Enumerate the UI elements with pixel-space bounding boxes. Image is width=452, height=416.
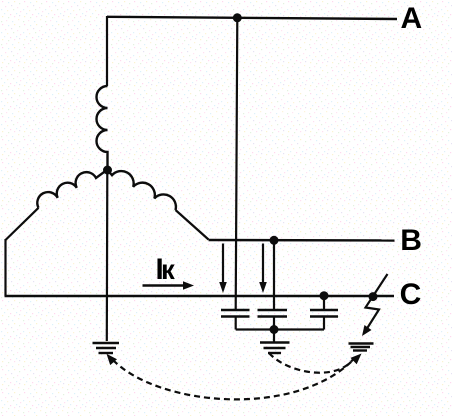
wire: B tap down to capacitor C2 [273,240,275,309]
wire: capacitor common bus [236,328,324,330]
capacitor C2 [258,310,288,317]
svg-text:C: C [400,278,422,311]
node: neutral junction dot [103,166,112,175]
fault lightning arrow [362,274,388,336]
dashed earth-current arc: fault to neutral ground [107,354,355,400]
current arrow: second branch [259,244,267,294]
node: C tap junction dot [320,291,329,300]
wire: diagonal from winding C down to B bus [176,210,209,240]
wire: phase C bus [5,295,395,298]
svg-text:A: A [401,2,423,35]
node: B tap junction dot [270,236,279,245]
ground: fault earth [349,344,374,351]
wire: left vertical from A bus to winding [106,16,108,86]
dashed earth-current arc: capacitor ground to fault [269,353,362,373]
wire: bus down to ground [273,330,275,343]
winding A (vertical coil) [97,86,108,167]
capacitor C3 [310,310,338,317]
wire: phase B bus [209,239,395,242]
node: A tap junction dot [233,13,242,22]
ground: capacitor bank earth [260,343,290,354]
arrow: Ik direction [143,281,195,290]
wire: neutral down to ground [106,172,109,341]
wire: C1 bottom stub [235,318,237,330]
current arrow: B tap branch [219,244,227,294]
wire: C2 bottom stub [273,318,275,330]
wire: C tap down to capacitor C3 [323,296,325,309]
capacitor C1 [221,310,250,317]
node: fault point dot on C bus [369,292,378,301]
wire: C3 bottom stub [323,318,325,330]
node: bus junction dot [270,325,279,334]
winding B (upper-left diagonal coil) [37,170,107,208]
svg-text:к: к [161,254,175,285]
ground: neutral earth [93,343,120,353]
svg-text:B: B [400,224,422,257]
wire: left edge vertical down to C bus [4,239,6,296]
winding C (upper-right diagonal coil) [108,170,176,210]
wire: A tap down to capacitor C1 [236,18,238,309]
wire: diagonal from winding B down-left [6,208,39,240]
wire: phase A bus [107,17,397,19]
